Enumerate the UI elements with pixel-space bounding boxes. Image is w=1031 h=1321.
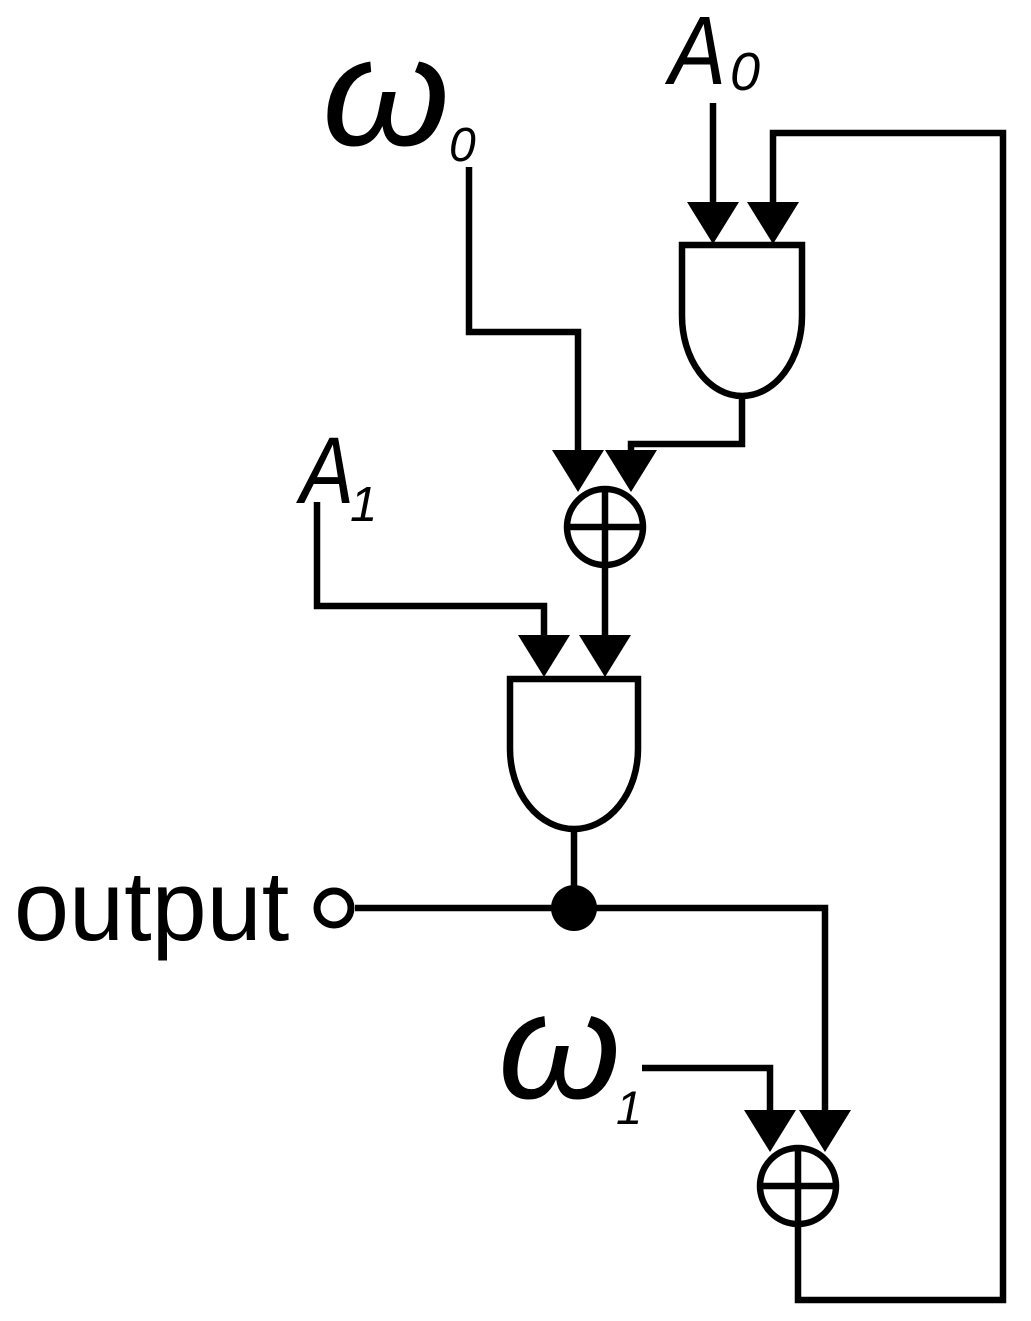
svg-text:ω: ω [498, 961, 621, 1131]
wire omega0 to X1 [469, 167, 578, 460]
wire A0 to U1 [710, 103, 717, 210]
xor node X2 circle [760, 1148, 836, 1224]
junction dot [551, 885, 597, 931]
svg-text:0: 0 [730, 42, 760, 102]
arrowhead omega0 into X1 [552, 450, 604, 492]
arrowhead feedback into U1 [747, 202, 799, 244]
X2 plus horizontal [760, 1183, 836, 1190]
svg-text:0: 0 [449, 119, 476, 172]
arrowhead A1 into U2 [518, 635, 570, 677]
arrowhead omega1 into X2 [744, 1110, 796, 1152]
wire U1 output to X1 [631, 394, 742, 460]
svg-text:1: 1 [350, 478, 377, 532]
X1 plus horizontal [567, 524, 643, 531]
svg-text:ω: ω [322, 5, 450, 178]
X1 plus vertical / output wire to U2 [602, 489, 609, 644]
svg-text:A: A [665, 0, 726, 105]
svg-text:1: 1 [616, 1081, 642, 1134]
svg-text:output: output [14, 850, 289, 961]
wire omega1 to X2 [642, 1068, 770, 1116]
xor node X1 circle [567, 489, 643, 565]
feedback wire X2 output to U1 input (right loop) [773, 133, 1003, 1300]
and-gate U1 (top) [682, 245, 802, 396]
wire output line and junction to X2 [355, 908, 825, 1116]
and-gate U2 (middle) [510, 679, 638, 829]
wire A1 to U2 [317, 502, 544, 644]
arrowhead X1 into U2 [579, 635, 631, 677]
output terminal circle [317, 891, 351, 925]
wire U2 output to junction [571, 827, 578, 908]
arrowhead junction into X2 [799, 1110, 851, 1152]
svg-text:A: A [296, 418, 354, 524]
arrowhead A0 into U1 [687, 202, 739, 244]
arrowhead U1 into X1 [605, 450, 657, 492]
